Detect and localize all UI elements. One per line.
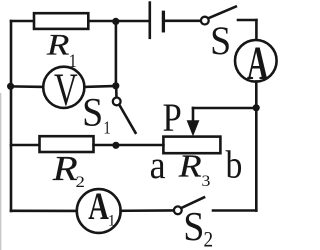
switch S2 lever xyxy=(181,197,204,208)
wire A to bottom corner (right vertical) xyxy=(255,82,258,211)
wire S2 to bottom-right corner xyxy=(213,209,256,212)
wire right vertical upper xyxy=(255,20,258,40)
switch S2 pivot circle xyxy=(174,206,182,214)
svg-text:V: V xyxy=(54,64,78,116)
wire S to right corner xyxy=(238,19,256,22)
resistor R2 xyxy=(40,136,94,152)
wire bottom-left to A1 xyxy=(11,210,77,213)
switch S1 stub xyxy=(115,88,118,97)
switch S1 lever xyxy=(119,105,135,133)
voltmeter V circle xyxy=(43,67,84,108)
svg-text:P: P xyxy=(162,97,181,141)
wire R2 to R3 xyxy=(94,144,164,147)
rheostat R3 box xyxy=(163,137,220,154)
svg-text:1: 1 xyxy=(108,212,116,229)
svg-text:R: R xyxy=(178,149,202,183)
node junction under A xyxy=(253,104,260,111)
wire top-left to R1 xyxy=(11,20,34,23)
wire battery to switch S xyxy=(163,19,200,22)
wire V left xyxy=(11,85,43,88)
slider P arrowhead xyxy=(187,120,200,136)
resistor R1 xyxy=(34,13,88,29)
scan artifact left edge xyxy=(0,93,2,250)
svg-text:A: A xyxy=(88,186,109,228)
switch S lever xyxy=(209,7,236,19)
wire left vertical xyxy=(10,21,13,211)
node top battery junction xyxy=(112,18,119,25)
svg-text:3: 3 xyxy=(202,172,211,190)
battery short plate xyxy=(162,12,165,31)
svg-text:R: R xyxy=(52,149,78,188)
battery long plate xyxy=(149,3,152,38)
svg-text:R: R xyxy=(46,29,70,62)
wire top junction down to S1 xyxy=(115,21,118,86)
slider P stem xyxy=(192,108,195,124)
wire A1 to S2 xyxy=(121,209,174,212)
node left voltmeter junction xyxy=(7,83,14,90)
svg-text:S: S xyxy=(183,202,204,249)
wire slider horizontal xyxy=(193,107,256,110)
switch S1 pivot circle xyxy=(113,98,121,106)
wire R1 to battery xyxy=(88,20,149,23)
svg-text:2: 2 xyxy=(76,172,85,190)
node R2 right junction xyxy=(112,142,119,149)
ammeter A circle xyxy=(235,40,277,82)
svg-text:2: 2 xyxy=(204,227,214,250)
wire V right xyxy=(84,85,115,89)
svg-text:a: a xyxy=(150,145,166,188)
svg-text:S: S xyxy=(82,91,103,135)
svg-text:S: S xyxy=(210,19,231,63)
ammeter A1 circle xyxy=(77,189,121,233)
svg-text:A: A xyxy=(247,37,269,90)
switch S pivot circle xyxy=(201,17,209,25)
node S1 top junction xyxy=(112,82,119,89)
wire middle-left to R2 xyxy=(11,144,40,147)
svg-text:1: 1 xyxy=(103,117,110,138)
svg-text:b: b xyxy=(226,143,243,186)
